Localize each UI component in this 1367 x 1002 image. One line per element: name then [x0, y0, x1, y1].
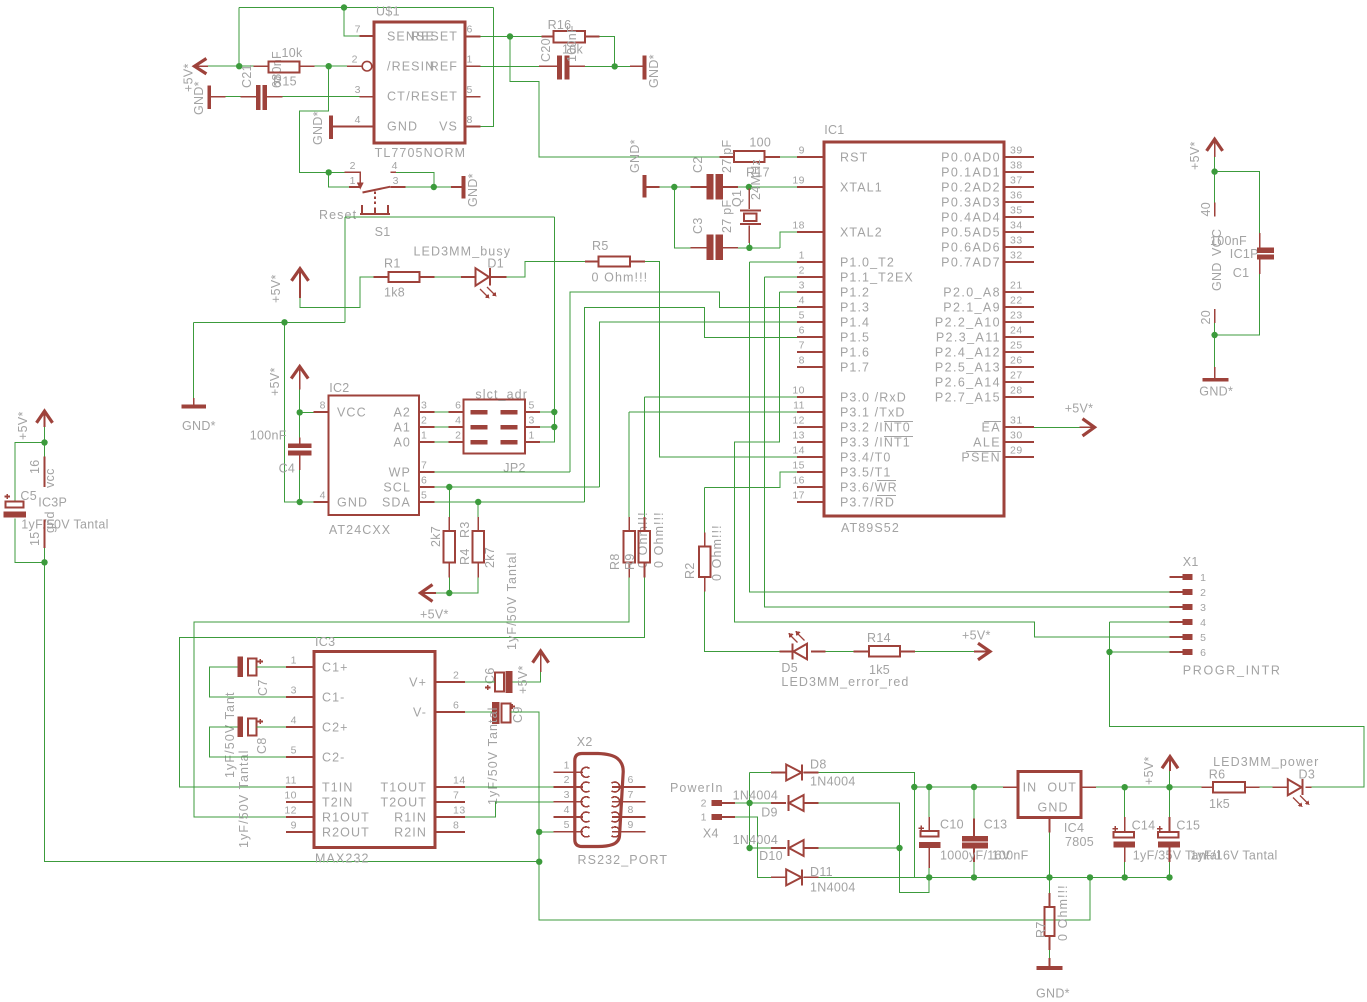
svg-text:P2.1_A9: P2.1_A9	[943, 301, 1001, 315]
svg-text:3: 3	[799, 280, 805, 292]
svg-text:15: 15	[28, 531, 42, 546]
resistor R1 1k8	[373, 276, 434, 278]
svg-text:GND*: GND*	[192, 81, 206, 115]
node junction X2 pin5	[536, 829, 542, 835]
svg-text:3: 3	[1200, 602, 1206, 614]
svg-text:P2.6_A14: P2.6_A14	[935, 376, 1001, 390]
wire XTAL1 row	[660, 187, 798, 248]
svg-text:+5V*: +5V*	[1065, 402, 1094, 416]
svg-text:0 Ohm!!!: 0 Ohm!!!	[710, 524, 724, 581]
wire R1IN to X2 pin3	[465, 802, 553, 817]
svg-text:38: 38	[1010, 160, 1023, 172]
IC1P power pins	[1214, 203, 1216, 323]
resistor R4 2k7	[448, 487, 450, 517]
svg-text:R2IN: R2IN	[394, 825, 427, 839]
svg-text:C3: C3	[691, 217, 705, 234]
svg-text:4: 4	[799, 295, 805, 307]
wire REF row	[481, 65, 630, 67]
svg-text:1: 1	[421, 430, 427, 442]
wire GND rail left	[194, 322, 345, 502]
svg-text:P2.2_A10: P2.2_A10	[935, 316, 1001, 330]
wire OUT rail	[1096, 786, 1201, 788]
svg-text:MAX232: MAX232	[315, 852, 370, 866]
svg-text:36: 36	[1010, 190, 1023, 202]
node junction C14 bottom	[1122, 874, 1128, 880]
svg-text:C9: C9	[511, 706, 525, 723]
pin 4 GND	[345, 126, 374, 128]
MAX232 pin names	[322, 660, 370, 839]
X1 pin 3	[1170, 606, 1183, 608]
svg-text:IC2: IC2	[329, 381, 349, 395]
svg-text:+5V*: +5V*	[420, 608, 449, 622]
resistor R5 0 Ohm	[585, 261, 645, 263]
wire reset zigzag to S1	[300, 66, 349, 187]
wire plus rail to 7805	[914, 786, 1003, 788]
svg-text:22: 22	[1010, 295, 1023, 307]
wire IC2 VCC	[300, 390, 314, 502]
wire SDA net	[434, 308, 797, 503]
svg-text:IC1: IC1	[824, 123, 844, 137]
svg-text:X4: X4	[703, 827, 719, 841]
svg-text:U$1: U$1	[376, 5, 400, 19]
wire X1 gnd pins 4 6 to D3	[1110, 622, 1364, 787]
svg-text:vcc: vcc	[43, 468, 57, 488]
node junction IC1P vcc	[1211, 168, 1217, 174]
node junction C13 top	[971, 784, 977, 790]
IC1 pin name overlines	[877, 422, 913, 496]
ground GND* S1	[451, 186, 462, 188]
node junction R4 bottom	[446, 590, 452, 596]
svg-text:R3: R3	[458, 521, 472, 538]
svg-text:+5V*: +5V*	[1142, 756, 1156, 785]
svg-text:D3: D3	[1299, 768, 1316, 782]
capacitor C4 100nF	[299, 437, 301, 470]
svg-text:6: 6	[421, 475, 427, 487]
IC1 left pin stubs	[797, 157, 824, 502]
svg-text:P0.5AD5: P0.5AD5	[941, 226, 1001, 240]
svg-text:GND: GND	[1038, 800, 1069, 814]
wire R5 to P3.4	[645, 262, 797, 458]
svg-text:C10: C10	[940, 818, 964, 832]
node junction IC2 vcc	[297, 409, 303, 415]
svg-text:11: 11	[285, 775, 297, 787]
svg-text:GND*: GND*	[628, 139, 642, 173]
svg-text:1k5: 1k5	[1209, 797, 1230, 811]
wire IC1P vcc C1	[1215, 157, 1260, 233]
wire SCL net	[434, 322, 797, 487]
MAX232 pin numbers	[284, 655, 297, 832]
svg-text:P3.6/WR: P3.6/WR	[840, 481, 898, 495]
svg-text:6: 6	[455, 400, 461, 412]
svg-text:P2.5_A13: P2.5_A13	[935, 361, 1001, 375]
svg-text:18: 18	[792, 220, 805, 232]
svg-text:P0.4AD4: P0.4AD4	[941, 211, 1001, 225]
svg-text:2: 2	[421, 415, 427, 427]
wire gnd rail C5 to X2	[45, 562, 540, 861]
svg-text:1k5: 1k5	[869, 663, 890, 677]
diode D5 LED3MM_error_red	[780, 651, 826, 653]
svg-text:P0.3AD3: P0.3AD3	[941, 196, 1001, 210]
wire IC2 to JP2	[434, 412, 448, 442]
svg-text:C15: C15	[1176, 819, 1200, 833]
svg-text:26: 26	[1010, 355, 1023, 367]
wire D5 to R14	[825, 651, 853, 653]
node junction RESET	[507, 33, 513, 39]
ground GND* C21	[207, 86, 211, 109]
svg-text:1: 1	[467, 54, 473, 66]
svg-text:LED3MM_error_red: LED3MM_error_red	[781, 675, 909, 689]
wire R1 to D1	[434, 276, 461, 278]
X1 pin 5	[1170, 636, 1183, 638]
svg-text:REF: REF	[430, 60, 458, 74]
MAX232 left pin stubs	[286, 667, 314, 832]
svg-text:IC1P: IC1P	[1230, 247, 1259, 261]
wire X4 pin2 to bridge	[735, 773, 786, 849]
svg-text:1yF/50V Tantal: 1yF/50V Tantal	[486, 706, 500, 805]
svg-text:1yF/50V Tantal: 1yF/50V Tantal	[505, 551, 519, 650]
node junction top rail SENSE	[341, 4, 347, 10]
node junction D10	[746, 845, 752, 851]
svg-text:PowerIn: PowerIn	[670, 781, 724, 795]
svg-text:10: 10	[284, 790, 297, 802]
MAX232 right pin stubs	[435, 682, 465, 832]
svg-text:1N4004: 1N4004	[810, 775, 856, 789]
+5V arrow C6	[533, 651, 549, 663]
svg-text:4: 4	[320, 490, 326, 502]
svg-text:2: 2	[701, 798, 707, 810]
svg-text:34: 34	[1010, 220, 1023, 232]
svg-text:V+: V+	[409, 675, 427, 689]
capacitor C6	[495, 673, 504, 692]
svg-text:R8: R8	[608, 553, 622, 570]
svg-text:D8: D8	[810, 758, 827, 772]
svg-text:2: 2	[350, 160, 356, 172]
svg-text:P0.0AD0: P0.0AD0	[941, 151, 1001, 165]
wire +5V top rail TL7705	[208, 8, 494, 127]
svg-text:T1IN: T1IN	[322, 780, 354, 794]
wire C7 loop	[210, 667, 286, 697]
svg-text:P3.5/T1: P3.5/T1	[840, 466, 891, 480]
resistor R6 1k5	[1202, 786, 1260, 788]
svg-text:P2.0_A8: P2.0_A8	[943, 286, 1001, 300]
node junction D9 D10	[896, 845, 902, 851]
svg-text:GND*: GND*	[647, 54, 661, 88]
capacitor C8	[238, 717, 244, 738]
node junction C14 top	[1122, 784, 1128, 790]
svg-text:33: 33	[1010, 235, 1023, 247]
wire D8 to plus rail	[819, 773, 915, 878]
IC1 left pin numbers	[792, 145, 805, 502]
svg-text:1N4004: 1N4004	[733, 833, 779, 847]
svg-text:2: 2	[1200, 587, 1206, 599]
wire C1 bottom to gnd	[1215, 274, 1260, 367]
svg-text:+5V*: +5V*	[516, 665, 530, 694]
ground GND* IC1P	[1214, 367, 1216, 378]
wire R9 to R1OUT	[180, 577, 645, 787]
svg-text:5: 5	[421, 490, 427, 502]
diode D8 1N4004	[771, 772, 818, 774]
svg-text:C8: C8	[255, 737, 269, 754]
capacitor C9	[492, 702, 499, 724]
svg-text:9: 9	[291, 820, 297, 832]
IC1 right pin names	[935, 151, 1001, 465]
node junction xtal gnd	[671, 184, 677, 190]
capacitor C14 1yF/35V	[1124, 787, 1126, 877]
wire P1.1 to X1.3	[764, 277, 1169, 607]
pin 7 SENSE	[360, 35, 375, 37]
svg-text:4: 4	[392, 160, 398, 172]
svg-text:R2OUT: R2OUT	[322, 825, 370, 839]
+5V arrow C5	[37, 411, 53, 423]
svg-text:6: 6	[453, 700, 459, 712]
ground GND* TL pin4	[329, 115, 333, 139]
ground GND* C20	[630, 65, 643, 67]
svg-text:6: 6	[799, 325, 805, 337]
svg-text:6: 6	[628, 774, 634, 786]
svg-text:gnd: gnd	[43, 511, 57, 533]
svg-text:2: 2	[453, 670, 459, 682]
svg-text:/RESET: /RESET	[406, 90, 458, 104]
svg-text:30: 30	[1010, 430, 1023, 442]
IC1 right pin stubs	[1004, 157, 1034, 457]
wire pin6 RESET net	[481, 37, 720, 158]
wire R2 to D5	[705, 591, 780, 651]
svg-text:VCC: VCC	[337, 406, 367, 420]
svg-text:P1.5: P1.5	[840, 331, 870, 345]
svg-text:7: 7	[628, 789, 634, 801]
pin 1 REF	[465, 65, 481, 67]
svg-text:R1: R1	[384, 257, 401, 271]
svg-text:17: 17	[792, 490, 805, 502]
svg-text:AT89S52: AT89S52	[841, 521, 900, 535]
svg-text:P3.2 /INT0: P3.2 /INT0	[840, 421, 911, 435]
+5V arrow left top	[195, 59, 207, 74]
resistor R16 10k	[542, 36, 600, 38]
wire T1OUT to X2 pin2	[465, 786, 553, 788]
wire P3.0 row	[645, 397, 798, 517]
+5V arrow R1	[292, 269, 309, 281]
svg-text:1k8: 1k8	[384, 286, 405, 300]
node junction S1 left	[326, 169, 332, 175]
capacitor C21 680nF	[241, 96, 283, 98]
svg-text:GND*: GND*	[182, 419, 216, 433]
svg-text:P1.7: P1.7	[840, 361, 870, 375]
svg-text:P2.7_A15: P2.7_A15	[935, 391, 1001, 405]
svg-text:C1: C1	[1233, 266, 1250, 280]
wire +5V to R1	[300, 277, 373, 308]
svg-text:100nF: 100nF	[250, 429, 287, 443]
capacitor C2 27pF	[691, 186, 738, 188]
svg-text:7: 7	[799, 340, 805, 352]
resistor R9 0 Ohm	[644, 517, 646, 577]
svg-text:100nF: 100nF	[565, 25, 579, 62]
wire RST to IC1	[780, 156, 797, 158]
svg-text:31: 31	[1010, 415, 1023, 427]
X1 pin 6	[1170, 651, 1183, 653]
svg-text:R9: R9	[623, 553, 637, 570]
IC1 right pin numbers	[1010, 145, 1023, 457]
svg-text:CT: CT	[387, 90, 406, 104]
svg-text:1: 1	[701, 812, 707, 824]
capacitor C3 27pF	[691, 247, 738, 249]
svg-text:13: 13	[792, 430, 805, 442]
wire C8 loop	[210, 727, 286, 757]
X2 left pin stubs	[554, 772, 583, 832]
svg-text:35: 35	[1010, 205, 1023, 217]
svg-text:1: 1	[799, 250, 805, 262]
ground GND* R7	[1049, 950, 1051, 958]
node junction S1 gnd	[431, 184, 437, 190]
node junction C10 bottom	[926, 874, 932, 880]
svg-text:slct_adr: slct_adr	[475, 388, 528, 402]
capacitor C10 1000yF	[928, 787, 930, 877]
svg-text:6: 6	[1200, 647, 1206, 659]
svg-text:IC3: IC3	[315, 635, 335, 649]
svg-text:2: 2	[799, 265, 805, 277]
diode D11 1N4004	[771, 876, 818, 878]
svg-text:P0.7AD7: P0.7AD7	[941, 256, 1001, 270]
svg-text:5: 5	[529, 400, 535, 412]
capacitor C5 1yF/50V Tantal	[6, 502, 24, 508]
svg-text:C1-: C1-	[322, 690, 345, 704]
X1 pin 4	[1170, 621, 1183, 623]
IC IC1 AT89S52 box	[824, 142, 1004, 516]
svg-text:6: 6	[467, 24, 473, 36]
svg-text:2: 2	[352, 54, 358, 66]
node junction C13 bottom	[971, 874, 977, 880]
svg-text:+5V*: +5V*	[268, 367, 282, 396]
connector X2 RS232_PORT body	[575, 754, 623, 847]
svg-text:R1OUT: R1OUT	[322, 810, 370, 824]
IC U$1 TL7705 box	[374, 22, 465, 143]
svg-text:27 pF: 27 pF	[720, 139, 734, 173]
pin 8 VS	[465, 126, 481, 128]
capacitor C1 100nF	[1259, 233, 1261, 274]
node junction C5 bottom	[41, 559, 47, 565]
svg-text:R1IN: R1IN	[394, 810, 427, 824]
svg-text:23: 23	[1010, 310, 1023, 322]
svg-text:A0: A0	[394, 436, 412, 450]
svg-text:P2.3_A11: P2.3_A11	[936, 331, 1001, 345]
pin 2 /RESIN	[347, 65, 362, 67]
node junction D8 rail	[911, 784, 917, 790]
node junction C10 top	[926, 784, 932, 790]
resistor R7 0 Ohm	[1049, 877, 1051, 893]
capacitor C15 1yF/16V	[1169, 787, 1171, 877]
wire CT line	[226, 96, 360, 98]
svg-text:C5: C5	[20, 489, 37, 503]
svg-text:3: 3	[564, 789, 570, 801]
svg-text:4: 4	[355, 114, 361, 126]
svg-text:P1.3: P1.3	[840, 301, 870, 315]
svg-text:32: 32	[1010, 250, 1023, 262]
node junction C5 top	[41, 439, 47, 445]
X2 pin numbers	[564, 759, 570, 831]
svg-text:SCL: SCL	[383, 481, 411, 495]
svg-text:C2+: C2+	[322, 720, 349, 734]
svg-text:29: 29	[1010, 445, 1023, 457]
svg-text:C2-: C2-	[322, 750, 345, 764]
svg-text:P3.3 /INT1: P3.3 /INT1	[840, 436, 911, 450]
svg-text:4: 4	[1200, 617, 1206, 629]
+5V arrow IC2	[291, 367, 308, 379]
connector JP2 slct_adr	[463, 400, 525, 454]
wire WP net	[434, 292, 797, 472]
svg-text:D11: D11	[810, 865, 833, 879]
svg-text:Reset: Reset	[319, 208, 357, 222]
svg-text:D10: D10	[759, 849, 783, 863]
node junction 7805 gnd	[1046, 874, 1052, 880]
svg-text:4: 4	[455, 415, 461, 427]
svg-text:1yF/50V Tantal: 1yF/50V Tantal	[21, 518, 108, 532]
svg-text:P1.6: P1.6	[840, 346, 870, 360]
svg-text:TL7705NORM: TL7705NORM	[375, 146, 467, 160]
svg-text:8: 8	[628, 804, 634, 816]
svg-text:EA: EA	[982, 421, 1001, 435]
svg-text:C4: C4	[279, 462, 296, 476]
svg-text:37: 37	[1010, 175, 1023, 187]
svg-text:R14: R14	[867, 631, 891, 645]
svg-text:+5V*: +5V*	[1188, 141, 1202, 170]
svg-text:8: 8	[320, 400, 326, 412]
svg-text:14: 14	[453, 775, 466, 787]
ground GND* crystal	[643, 175, 647, 198]
wire D11 row	[819, 876, 930, 878]
svg-text:C1+: C1+	[322, 660, 349, 674]
svg-text:R4: R4	[458, 548, 472, 565]
svg-text:P3.1 /TxD: P3.1 /TxD	[840, 406, 905, 420]
resistor R14 1k5	[854, 651, 915, 653]
svg-text:1: 1	[1200, 572, 1206, 584]
svg-text:A2: A2	[394, 406, 412, 420]
node junction gnd rail X2	[536, 859, 542, 865]
svg-text:0 Ohm!!!: 0 Ohm!!!	[652, 511, 666, 568]
svg-text:D5: D5	[781, 661, 798, 675]
svg-text:8: 8	[799, 355, 805, 367]
resistor R15 10k	[254, 65, 315, 67]
svg-text:24: 24	[1010, 325, 1023, 337]
svg-text:P1.4: P1.4	[840, 316, 870, 330]
svg-text:X1: X1	[1183, 555, 1199, 569]
node junction gnd return	[1087, 874, 1093, 880]
+5V arrow out	[1162, 757, 1178, 769]
pin 3 CT	[360, 96, 375, 98]
capacitor C20 100nF	[539, 65, 585, 67]
svg-text:9: 9	[628, 819, 634, 831]
wire JP2 gnd bus	[540, 217, 554, 442]
svg-text:100nF: 100nF	[992, 849, 1029, 863]
svg-text:10k: 10k	[282, 46, 304, 60]
+5V arrow R3 R4	[421, 585, 433, 602]
svg-text:RST: RST	[840, 151, 868, 165]
svg-text:V-: V-	[413, 705, 427, 719]
svg-text:2: 2	[564, 774, 570, 786]
svg-text:R7: R7	[1034, 921, 1048, 938]
wire gnd rail bottom	[929, 876, 1169, 878]
svg-text:GND: GND	[387, 120, 418, 134]
svg-text:P0.2AD2: P0.2AD2	[941, 181, 1001, 195]
svg-text:4: 4	[291, 715, 297, 727]
node junction X4 pin2	[746, 800, 752, 806]
svg-text:P0.1AD1: P0.1AD1	[941, 166, 1001, 180]
wire S1 pins 3,4 to GND	[396, 172, 451, 187]
node junction C15 top	[1166, 784, 1172, 790]
svg-text:T2OUT: T2OUT	[381, 795, 427, 809]
svg-text:P3.4/T0: P3.4/T0	[840, 451, 891, 465]
wire P3.5 P3.6 to R2	[705, 472, 797, 532]
svg-text:C14: C14	[1132, 819, 1156, 833]
svg-text:X2: X2	[577, 735, 593, 749]
